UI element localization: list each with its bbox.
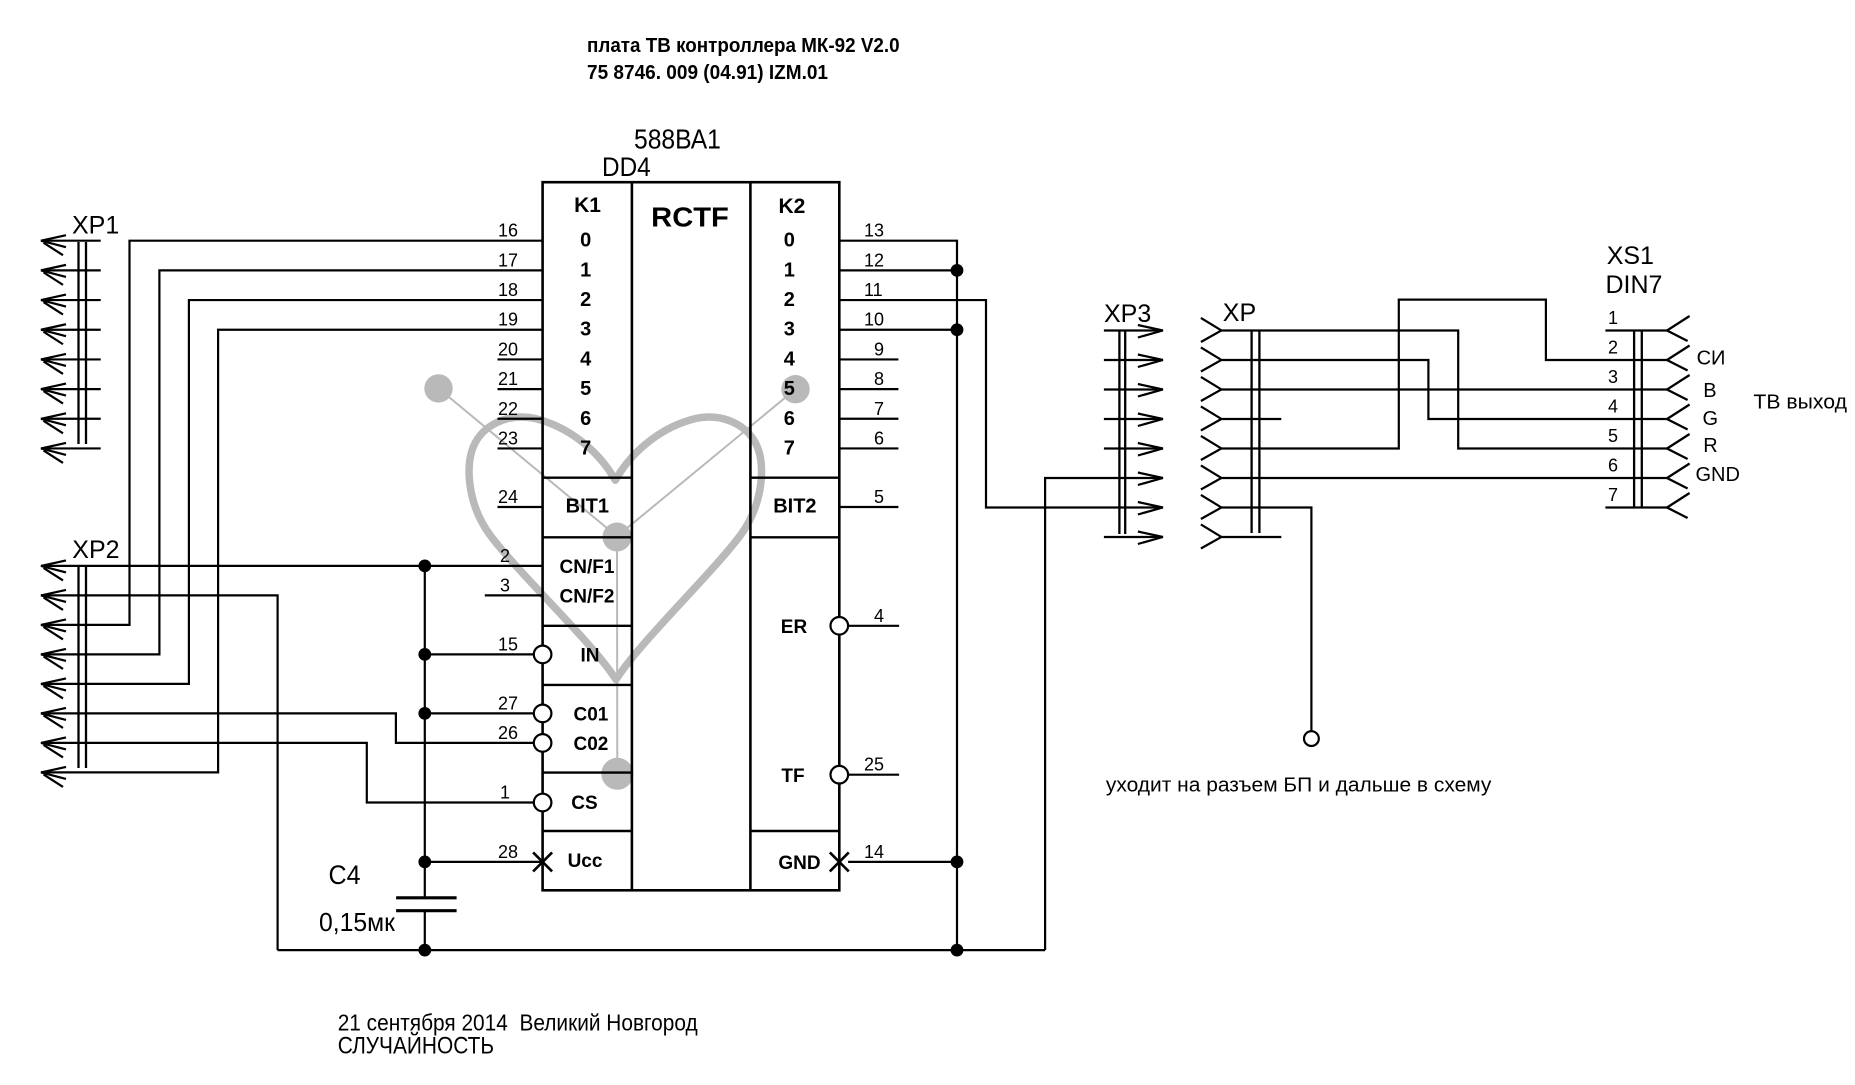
wire XP2.3 to pin16 (41, 241, 543, 625)
IC column divider left (631, 182, 634, 890)
XP2 pin 5 arrow (41, 678, 66, 698)
svg-text:24: 24 (498, 487, 518, 507)
XP2 pin 3 arrow (41, 619, 66, 639)
svg-text:XP: XP (1223, 299, 1256, 327)
wire pin11 to XP3.7 (839, 300, 1163, 507)
pin 6 stub (839, 447, 898, 449)
svg-text:0: 0 (784, 230, 795, 252)
XP pin 6 arrow (1201, 465, 1222, 489)
XP pin 2 arrow (1201, 347, 1222, 371)
pin 3 CN/F2 stub (485, 594, 543, 596)
pin 26 C02 bubble (534, 734, 552, 752)
XP3 pin 7 arrow (1138, 502, 1163, 515)
svg-text:CN/F1: CN/F1 (560, 557, 615, 578)
connector XP bar (1250, 331, 1252, 534)
wire pin28 Ucc from rail (425, 861, 543, 863)
svg-text:1: 1 (784, 259, 795, 281)
svg-text:9: 9 (874, 339, 884, 359)
wire XP.5 to XS1 pin2 (1221, 300, 1667, 449)
XS1 pin 3 arrow (1667, 375, 1690, 400)
svg-text:6: 6 (1608, 456, 1618, 476)
XP pin 7 arrow (1201, 495, 1222, 519)
wire XP2.5 to pin18 (41, 300, 543, 684)
svg-text:7: 7 (784, 437, 795, 459)
svg-text:15: 15 (498, 634, 518, 654)
svg-text:K1: K1 (574, 194, 601, 217)
XP2 pin 6 arrow (41, 708, 66, 728)
watermark line vertical (616, 536, 618, 773)
svg-text:6: 6 (580, 408, 591, 430)
XS1 pin 4 arrow (1667, 405, 1690, 430)
svg-text:23: 23 (498, 428, 518, 448)
watermark circle bottom (601, 758, 633, 790)
svg-text:26: 26 (498, 723, 518, 743)
connector XS1 bar (1633, 331, 1635, 508)
svg-text:4: 4 (874, 606, 884, 626)
XP pin 4 arrow (1201, 406, 1222, 430)
pin 14 GND cross (830, 852, 849, 871)
svg-text:ТВ выход: ТВ выход (1753, 392, 1847, 414)
XP pin 3 arrow (1201, 377, 1222, 401)
svg-text:7: 7 (874, 399, 884, 419)
svg-text:XS1: XS1 (1607, 242, 1654, 270)
pin 27 C01 bubble (534, 705, 552, 723)
svg-text:B: B (1703, 380, 1716, 402)
XP2 pin 1 arrow (41, 560, 66, 580)
svg-text:19: 19 (498, 310, 518, 330)
svg-text:13: 13 (864, 221, 884, 241)
svg-text:10: 10 (864, 310, 884, 330)
XP3 pin 4 arrow (1138, 414, 1163, 427)
svg-text:CS: CS (571, 793, 597, 814)
PSU wire end circle (1304, 731, 1319, 746)
svg-text:11: 11 (864, 280, 883, 300)
XP1 pin 1 arrow (41, 235, 66, 255)
XS1 pin 6 arrow (1667, 464, 1690, 489)
svg-text:3: 3 (784, 319, 795, 341)
connector XP3 bar (1118, 331, 1120, 535)
wire XP.2 to XS1 pin4 (1221, 360, 1667, 419)
XP1 pin 4 arrow (41, 324, 66, 344)
svg-text:75 8746. 009 (04.91) IZM.01: 75 8746. 009 (04.91) IZM.01 (587, 62, 828, 84)
XP pin 5 arrow (1201, 436, 1222, 460)
svg-text:5: 5 (1608, 426, 1618, 446)
XP2 pin 8 arrow (41, 767, 66, 787)
Ucc rail vertical upper (424, 566, 426, 898)
svg-text:7: 7 (1608, 485, 1618, 505)
svg-text:IN: IN (581, 646, 600, 667)
wire pin27 C01 from Ucc rail (425, 712, 534, 714)
svg-text:C4: C4 (329, 860, 361, 890)
XP2 pin 2 arrow (41, 590, 66, 610)
connector XP2 bar (77, 567, 79, 768)
pin 4 ER bubble (831, 617, 849, 635)
wire pin10 (839, 329, 957, 331)
pin 9 stub (839, 358, 898, 360)
K2 cell dividers (750, 477, 839, 479)
wire pin13 (839, 241, 957, 950)
XP3 pin 8 arrow (1138, 532, 1163, 545)
wire XP.4 stub (1221, 418, 1281, 420)
pin 24 BIT1 stub (498, 506, 543, 508)
XP3 pin 5 arrow (1138, 443, 1163, 456)
wire XP.7 to PSU (1221, 508, 1311, 732)
svg-text:4: 4 (1608, 397, 1618, 417)
capacitor C4 (396, 896, 457, 899)
svg-text:2: 2 (580, 289, 591, 311)
XP2 pin 7 arrow (41, 737, 66, 757)
pin 4 ER line (848, 625, 899, 627)
pin 25 TF bubble (831, 766, 849, 784)
pin 1 CS bubble (534, 794, 552, 812)
svg-text:ER: ER (781, 617, 808, 638)
XP3 pin 6 arrow (1138, 473, 1163, 486)
svg-text:C01: C01 (573, 705, 608, 726)
wire XP2.1 to pin2 CN/F1 (41, 565, 543, 567)
XP3 pin 2 arrow (1138, 355, 1163, 368)
watermark heart outline (469, 417, 761, 680)
watermark circle top-right (781, 375, 809, 403)
XP1 pin 8 arrow (41, 443, 66, 463)
svg-text:5: 5 (784, 378, 795, 400)
XP1 pin 2 arrow (41, 265, 66, 285)
Ucc rail vertical lower (424, 911, 426, 950)
svg-text:3: 3 (580, 319, 591, 341)
svg-text:2: 2 (1608, 338, 1618, 358)
svg-text:16: 16 (498, 221, 518, 241)
svg-text:GND: GND (1696, 464, 1740, 486)
svg-text:25: 25 (864, 755, 884, 775)
svg-text:12: 12 (864, 250, 884, 270)
svg-text:СЛУЧАЙНОСТЬ: СЛУЧАЙНОСТЬ (338, 1031, 494, 1059)
svg-text:14: 14 (864, 842, 884, 862)
svg-text:588ВА1: 588ВА1 (634, 124, 721, 155)
svg-text:R: R (1703, 435, 1717, 457)
IC column divider right (749, 182, 752, 890)
wire XP.8 stub (1221, 536, 1281, 538)
XP pin 1 arrow (1201, 318, 1222, 342)
pin 21 stub (498, 388, 543, 390)
wire XP.6 to XS1 pin6 (1221, 477, 1667, 479)
XS1 pin 5 arrow (1667, 434, 1690, 459)
svg-text:27: 27 (498, 693, 518, 713)
svg-text:XP2: XP2 (72, 536, 119, 564)
svg-text:2: 2 (784, 289, 795, 311)
svg-text:0: 0 (580, 230, 591, 252)
svg-text:21: 21 (498, 369, 518, 389)
svg-text:СИ: СИ (1697, 348, 1726, 370)
svg-text:плата ТВ контроллера МК-92 V2.: плата ТВ контроллера МК-92 V2.0 (587, 35, 900, 57)
svg-text:5: 5 (874, 487, 884, 507)
XP3 pin 1 arrow (1138, 325, 1163, 338)
wire XP.1 to XS1 pin5 (1221, 331, 1667, 449)
svg-text:20: 20 (498, 339, 518, 359)
svg-text:K2: K2 (778, 195, 805, 218)
svg-text:BIT2: BIT2 (773, 496, 816, 518)
node right rail junctions (951, 264, 964, 277)
svg-text:6: 6 (784, 408, 795, 430)
XS1 pin 1 stub (1605, 329, 1667, 331)
wire XP2.4 to pin17 (41, 270, 543, 654)
svg-text:XP3: XP3 (1104, 300, 1151, 328)
svg-text:8: 8 (874, 369, 884, 389)
wire XP2.6 to pin26 C02 (41, 713, 534, 743)
svg-text:XP1: XP1 (72, 212, 119, 240)
XP3 pin 3 arrow (1138, 384, 1163, 397)
watermark line right (617, 389, 796, 536)
GND bottom rail (278, 949, 1046, 951)
svg-text:2: 2 (500, 546, 510, 566)
watermark line left (439, 388, 618, 536)
svg-text:RCTF: RCTF (651, 202, 729, 233)
svg-text:DD4: DD4 (602, 152, 651, 182)
pin 5 BIT2 stub (839, 506, 898, 508)
XP1 pin 6 arrow (41, 384, 66, 404)
svg-text:1: 1 (500, 783, 510, 803)
svg-text:22: 22 (498, 399, 518, 419)
pin 15 IN bubble (534, 646, 552, 664)
svg-text:DIN7: DIN7 (1606, 271, 1663, 299)
wire pin12 (839, 269, 957, 271)
svg-text:3: 3 (1608, 367, 1618, 387)
pin 8 stub (839, 388, 898, 390)
wire XP.3 to XS1 pin3 (1221, 388, 1667, 390)
pin 20 stub (498, 358, 543, 360)
XP1 pin 7 arrow (41, 413, 66, 433)
svg-text:4: 4 (580, 348, 592, 370)
XP1 pin 5 arrow (41, 354, 66, 374)
svg-text:18: 18 (498, 280, 518, 300)
svg-text:1: 1 (1608, 308, 1618, 328)
wire pin15 IN from Ucc rail (425, 653, 534, 655)
svg-text:CN/F2: CN/F2 (560, 587, 615, 608)
svg-text:0,15мк: 0,15мк (319, 907, 395, 937)
wire pin14 GND (848, 861, 957, 863)
XP2 pin 4 arrow (41, 649, 66, 669)
svg-text:G: G (1703, 408, 1719, 430)
XS1 pin 1 arrow (1667, 316, 1690, 341)
svg-text:7: 7 (580, 437, 591, 459)
XP1 pin 3 arrow (41, 295, 66, 315)
svg-text:уходит на разъем БП и дальше в: уходит на разъем БП и дальше в схему (1106, 774, 1492, 797)
svg-text:17: 17 (498, 250, 518, 270)
XS1 pin 2 arrow (1667, 346, 1690, 371)
pin 25 TF line (848, 774, 899, 776)
wire XP2.8 to pin19 (41, 330, 543, 773)
wire XP2.7 to pin1 CS (41, 743, 534, 803)
pin 22 stub (498, 418, 543, 420)
svg-text:5: 5 (580, 378, 591, 400)
svg-text:28: 28 (498, 842, 518, 862)
wire XP2.2 to GND rail (41, 595, 278, 950)
svg-text:6: 6 (874, 428, 884, 448)
XS1 pin 7 stub (1605, 506, 1667, 508)
pin 28 Ucc cross (533, 852, 552, 871)
pin 7 stub (839, 418, 898, 420)
IC U-DD4 588BA1 RCTF outer box (543, 182, 840, 890)
wire GND riser to XP3.6 (1045, 478, 1163, 950)
pin 23 stub (498, 447, 543, 449)
watermark circle middle (603, 523, 632, 552)
svg-text:BIT1: BIT1 (566, 496, 609, 518)
K1 cell dividers (543, 477, 632, 479)
XP pin 8 arrow (1201, 524, 1222, 548)
svg-text:TF: TF (781, 766, 804, 787)
svg-text:4: 4 (784, 348, 796, 370)
svg-text:C02: C02 (573, 734, 608, 755)
svg-text:GND: GND (778, 853, 820, 874)
connector XP1 bar (77, 242, 79, 444)
svg-text:3: 3 (500, 575, 510, 595)
node Ucc rail junctions (418, 560, 431, 573)
svg-text:Ucc: Ucc (568, 851, 603, 872)
svg-text:1: 1 (580, 259, 591, 281)
watermark circle top-left (424, 374, 452, 402)
XS1 pin 7 arrow (1667, 493, 1690, 518)
